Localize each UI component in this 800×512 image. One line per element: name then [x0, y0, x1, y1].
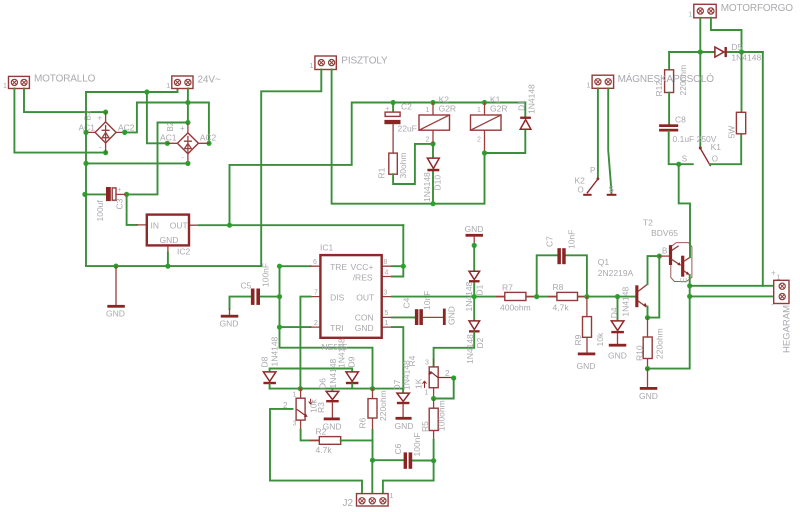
resistor R8 4,7k [549, 282, 586, 313]
svg-text:400ohm: 400ohm [500, 303, 531, 313]
svg-text:R4: R4 [407, 355, 417, 366]
bridge rectifier B3 [79, 110, 135, 152]
svg-text:1: 1 [426, 107, 430, 114]
svg-text:10nF: 10nF [567, 230, 577, 249]
node D4 tap [615, 294, 620, 299]
node T2 emitter rail [687, 283, 692, 288]
svg-text:J2: J2 [343, 498, 354, 509]
wire emitter to T2 base riser [648, 256, 660, 318]
svg-text:1: 1 [477, 107, 481, 114]
svg-text:30ohm: 30ohm [398, 153, 408, 179]
node TRE [277, 264, 282, 269]
svg-text:6: 6 [313, 259, 317, 266]
wire X4 pin1 down to K2 pivot [597, 88, 599, 178]
wire R10 bottom loop to emitter node of T2 [648, 296, 690, 368]
wire B2 plus to C3 node [127, 123, 188, 195]
capacitor C2 22uF [384, 102, 416, 154]
svg-text:GND: GND [106, 309, 125, 319]
svg-text:10k: 10k [595, 332, 605, 346]
svg-text:1: 1 [688, 11, 692, 18]
svg-text:K2: K2 [575, 176, 586, 186]
wire C6 node down to J2 pin1 [383, 461, 434, 494]
wire R1 bottom to K2 coil node [393, 144, 433, 184]
svg-text:R9: R9 [573, 334, 583, 345]
svg-text:+: + [771, 269, 776, 278]
svg-text:1N4148: 1N4148 [337, 338, 347, 368]
wire B-minus rail [86, 162, 188, 164]
wire pin7 DIS down x=300.4 [300, 297, 310, 389]
svg-text:C7: C7 [545, 236, 555, 247]
ground G7 under D4 [608, 344, 627, 361]
node rail left [83, 161, 88, 166]
svg-text:1: 1 [166, 83, 170, 90]
diode D1 (GND steering) 1N4148 [464, 245, 485, 321]
svg-text:TRE: TRE [330, 262, 347, 272]
svg-text:R10: R10 [635, 345, 645, 361]
svg-text:5: 5 [385, 310, 389, 317]
wire PISZTOLY pin1 to GND rail [261, 70, 321, 267]
svg-text:1K: 1K [414, 378, 424, 389]
svg-text:B: B [662, 247, 667, 256]
resistor R1 30ohm [377, 153, 409, 179]
wire R6 bottom to valley node [372, 430, 374, 460]
svg-text:S: S [609, 185, 614, 194]
svg-text:K1: K1 [711, 142, 722, 152]
wire D8 D9 top link [270, 369, 353, 372]
node 24Vpin2 y102.5 [185, 100, 190, 105]
svg-text:+: + [180, 124, 185, 133]
svg-text:S: S [682, 154, 687, 163]
svg-text:GND: GND [355, 323, 374, 333]
node B3 AC2 [122, 130, 127, 135]
wire PISZTOLY pin2 down to y204 rail [332, 70, 485, 204]
resistor R6 220ohm [358, 389, 389, 430]
svg-text:GND: GND [395, 421, 414, 431]
wire K1 S node down jog to T2 collector [679, 164, 690, 244]
capacitor C5 100nF [241, 263, 271, 305]
node rail x=372.5 [370, 386, 375, 391]
svg-text:2: 2 [477, 137, 481, 144]
svg-text:2: 2 [445, 369, 450, 378]
ground G6 under R9 [577, 353, 596, 372]
node K2 coil bottom [430, 141, 435, 146]
svg-text:1: 1 [385, 320, 389, 327]
svg-text:E: E [680, 278, 689, 283]
trimmer R3 10k [283, 389, 326, 430]
svg-text:D6: D6 [318, 378, 328, 389]
svg-text:1: 1 [777, 275, 781, 282]
node R4 bottom / R5 top [431, 396, 436, 401]
ground G2 under C5 [220, 309, 239, 329]
ground G9 east of C4 [423, 306, 457, 325]
diode D2 1N4148 [434, 321, 485, 367]
svg-text:B3: B3 [84, 110, 93, 120]
svg-text:1: 1 [390, 493, 394, 500]
svg-text:GND: GND [639, 391, 658, 401]
ground G1 [106, 266, 125, 318]
node C3 right [124, 192, 129, 197]
svg-text:4,7k: 4,7k [553, 303, 570, 313]
node B3 AC1 [83, 130, 88, 135]
diode D7 1N4148 [392, 360, 412, 417]
connector X2 24V [166, 75, 221, 91]
resistor R10 220ohm [635, 318, 665, 369]
node B3 plus [103, 110, 108, 115]
wire y=102.5 cross link [125, 103, 209, 144]
node D10 bottom [430, 201, 435, 206]
diode D9 1N4148 [337, 338, 359, 389]
svg-text:24V~: 24V~ [198, 75, 221, 86]
wire pin5 CON to C4 [392, 316, 415, 318]
svg-text:R5: R5 [420, 421, 430, 432]
node IC2 GND on rail [165, 264, 170, 269]
svg-text:IC2: IC2 [177, 247, 191, 257]
svg-text:-: - [181, 153, 184, 162]
node Q1 emitter [645, 315, 650, 320]
svg-text:DIS: DIS [330, 293, 345, 303]
node TRI [277, 325, 282, 330]
svg-text:D2: D2 [475, 337, 485, 348]
wire MOTORALLO pin2 down and right to B3 plus [24, 89, 106, 113]
diode D8 1N4148 [260, 336, 280, 388]
svg-text:R7: R7 [502, 283, 513, 293]
trimmer R4 1K [407, 355, 454, 398]
resistor R9 10k [573, 297, 605, 353]
svg-text:1N4148: 1N4148 [465, 334, 475, 364]
svg-text:7: 7 [314, 289, 318, 296]
svg-text:C8: C8 [675, 115, 686, 125]
svg-text:GND: GND [608, 351, 627, 361]
svg-text:R8: R8 [553, 282, 564, 292]
svg-text:GND: GND [220, 319, 239, 329]
svg-text:100uf: 100uf [95, 200, 105, 222]
svg-text:+: + [385, 106, 389, 113]
node C3 left [82, 192, 87, 197]
wire main OUT line y=296.6 [392, 296, 635, 298]
node valley right [431, 458, 436, 463]
svg-text:G2R: G2R [439, 104, 456, 114]
wire R3 bottom to R2 [301, 430, 320, 441]
svg-text:4.7k: 4.7k [316, 445, 333, 455]
svg-text:GND: GND [577, 361, 596, 371]
svg-text:D9: D9 [347, 356, 357, 367]
resistor 5W [727, 52, 746, 139]
svg-text:3: 3 [293, 421, 297, 428]
svg-text:22uF: 22uF [398, 124, 417, 134]
svg-text:1N4148: 1N4148 [621, 287, 631, 317]
capacitor C8 0.1uF 250V [659, 93, 717, 165]
svg-text:D7: D7 [392, 379, 402, 390]
ground G4 under D6 [323, 418, 342, 432]
node R8 right [584, 294, 589, 299]
wire down to B2 AC1 [147, 92, 167, 143]
connector X1 MOTORALLO [3, 74, 96, 91]
diode D6 1N4148 [318, 358, 339, 417]
wire MOTORALLO pin1 down and right to B3 minus [14, 89, 105, 153]
wire VCC from IC2 OUT [199, 224, 403, 226]
svg-text:T2: T2 [643, 218, 653, 228]
svg-text:C5: C5 [241, 281, 252, 291]
svg-text:D5: D5 [731, 42, 742, 52]
wire J2 pin2 riser [371, 460, 373, 493]
svg-text:TRI: TRI [330, 323, 344, 333]
svg-text:C2: C2 [401, 102, 412, 112]
svg-text:O: O [712, 154, 718, 163]
wire to HEGARAM pin2 [690, 295, 779, 297]
wire 24V pin2 down to B2 plus [187, 89, 189, 123]
resistor R2 4.7k [311, 427, 373, 456]
node R10 bottom [645, 366, 650, 371]
svg-text:MÁGNESKAPCSOLÓ: MÁGNESKAPCSOLÓ [618, 72, 715, 85]
diode D1 flyback 1N4148 [485, 84, 537, 153]
capacitor C4 10nF [402, 291, 433, 325]
connector X5 MOTORFORGO [688, 3, 793, 18]
svg-text:MOTORFORGO: MOTORFORGO [721, 3, 794, 14]
node Q1 collector / T2 base [657, 254, 662, 259]
ground G5 under D7 [395, 417, 414, 431]
diode D5 1N4148 [715, 42, 762, 63]
svg-text:G2R: G2R [490, 104, 507, 114]
capacitor C3 100uf [95, 187, 127, 222]
relay coil K2 G2R [419, 94, 456, 144]
resistor R12 220ohm [654, 52, 688, 97]
svg-text:PISZTOLY: PISZTOLY [341, 56, 388, 67]
svg-text:2: 2 [314, 320, 318, 327]
svg-text:P: P [590, 166, 595, 175]
svg-text:MOTORALLO: MOTORALLO [34, 74, 96, 85]
wire C5 left to ground G2 [230, 297, 251, 309]
wire C3 left to rail [85, 193, 106, 195]
svg-text:OUT: OUT [170, 220, 188, 230]
svg-text:1: 1 [293, 392, 297, 399]
svg-text:CON: CON [355, 312, 374, 322]
node B3 minus [103, 150, 108, 155]
svg-text:GND: GND [447, 306, 457, 325]
wire y=52 run [669, 51, 763, 53]
svg-text:BDV65: BDV65 [651, 228, 678, 238]
node VCC riser [227, 223, 232, 228]
wire pin1 GND down to rail y=388.6 [392, 327, 403, 389]
wire IC2 GND down to rail [167, 252, 169, 266]
svg-text:AC2: AC2 [200, 133, 217, 143]
wire emitter node to HEGARAM pin1 [690, 285, 779, 287]
node R4 wiper [451, 375, 456, 380]
wire X4 pin2 down to K2 S contact [608, 88, 611, 193]
connector X6 HEGARAM [771, 269, 793, 354]
transistor Q1 2N2219A [598, 256, 660, 318]
node valley left [370, 458, 375, 463]
connector J2 [343, 493, 394, 509]
svg-text:IC1: IC1 [320, 243, 334, 253]
capacitor C7 10nF [537, 230, 587, 297]
svg-text:100nF: 100nF [412, 432, 422, 456]
svg-text:C6: C6 [393, 443, 403, 454]
node DIS rail left [298, 386, 303, 391]
ground G3 inverted above D1 [465, 224, 484, 246]
wire 24V pin1 run y=92 [86, 89, 178, 93]
svg-text:1N4148: 1N4148 [422, 172, 432, 202]
svg-text:2N2219A: 2N2219A [598, 268, 634, 278]
wire valley line with C6 [373, 459, 434, 461]
svg-text:100nF: 100nF [261, 263, 271, 287]
svg-text:R1: R1 [377, 167, 387, 178]
svg-text:O: O [578, 185, 584, 194]
svg-text:R2: R2 [316, 427, 327, 437]
wire R4 wiper loop to R4 bottom [434, 378, 454, 399]
svg-text:+: + [117, 187, 121, 194]
node pin8 vcc [401, 264, 406, 269]
node K1 S junction [676, 162, 681, 167]
svg-text:4: 4 [385, 269, 389, 276]
svg-text:1N4148: 1N4148 [527, 84, 537, 114]
bridge rectifier B2 [160, 121, 217, 163]
svg-text:HEGARAM: HEGARAM [782, 305, 793, 353]
node R7/C7 left [534, 294, 539, 299]
node B2 AC2 [206, 141, 211, 146]
svg-text:10nF: 10nF [422, 291, 432, 310]
voltage regulator IC2 [137, 215, 199, 257]
resistor R5 100ohm [420, 399, 447, 441]
svg-text:1: 1 [587, 82, 591, 89]
svg-text:D1: D1 [517, 100, 527, 111]
svg-text:-: - [99, 143, 102, 152]
svg-text:1N4148: 1N4148 [328, 358, 338, 388]
svg-text:R6: R6 [358, 417, 368, 428]
wire rail y=388.6 [270, 388, 404, 390]
connector X4 MAGNESKAPCSOLO [587, 72, 715, 89]
wire C3 node down to IC2 IN [127, 194, 137, 225]
node C2 tap [391, 100, 396, 105]
svg-text:-: - [771, 300, 774, 309]
wire C5 right [260, 296, 280, 298]
node C5 right [277, 294, 282, 299]
switch K2 reed [575, 166, 617, 196]
node B2 AC1 [165, 141, 170, 146]
node K2 coil top [430, 100, 435, 105]
svg-text:3: 3 [425, 360, 429, 367]
diode D4 1N4148 [609, 287, 631, 344]
svg-text:D10: D10 [433, 175, 443, 191]
relay contact K1 [679, 142, 722, 166]
svg-text:+: + [98, 114, 103, 123]
svg-text:C4: C4 [402, 297, 412, 308]
node main line / D1 [472, 294, 477, 299]
node HEGARAM lower wire [687, 294, 692, 299]
relay coil K1 G2R [471, 94, 508, 153]
svg-text:1: 1 [310, 63, 314, 70]
connector X3 PISZTOLY [310, 56, 389, 71]
svg-text:3: 3 [384, 289, 388, 296]
wire VCC riser up and over to relay rail [230, 103, 526, 226]
svg-text:VCC+: VCC+ [351, 262, 374, 272]
svg-text:IN: IN [151, 220, 160, 230]
wire MOTORFORGO pin2 jog to D5 right node [711, 18, 742, 52]
wire R3 wiper to J2 loop [270, 409, 362, 494]
svg-text:2: 2 [426, 137, 430, 144]
svg-text:1N4148: 1N4148 [731, 53, 761, 63]
wire MOTORFORGO pin1 down to K1 contact [699, 18, 701, 147]
wire left GND rail x=86 [85, 92, 87, 266]
svg-text:GND: GND [465, 224, 484, 234]
svg-text:D8: D8 [260, 356, 270, 367]
svg-text:1N4148: 1N4148 [270, 336, 280, 366]
IC1 NE555 [310, 243, 392, 352]
svg-text:1: 1 [425, 390, 429, 397]
node y92 junction [144, 89, 149, 94]
diode D10 1N4148 [422, 144, 443, 204]
wire R5 bottom to valley [433, 440, 435, 461]
svg-text:GND: GND [160, 235, 179, 245]
svg-text:8: 8 [384, 259, 388, 266]
transistor T2 BDV65 darlington [643, 218, 692, 297]
wire right rail down to emitter line [762, 52, 764, 286]
node D5 left [698, 49, 703, 54]
svg-text:C3: C3 [115, 198, 125, 209]
svg-text:5W: 5W [727, 126, 737, 139]
svg-text:100ohm: 100ohm [437, 400, 447, 431]
svg-text:Q1: Q1 [598, 257, 610, 267]
svg-text:220ohm: 220ohm [378, 390, 388, 421]
node G3 tap [472, 243, 477, 248]
wire pins 8+4 to VCC riser [392, 225, 403, 276]
node GND symbol tap [113, 264, 118, 269]
svg-text:R3: R3 [316, 402, 326, 413]
node D5 right [739, 49, 744, 54]
svg-text:220ohm: 220ohm [655, 328, 665, 359]
svg-text:AC1: AC1 [160, 133, 177, 143]
ground G8 under R10 [639, 369, 658, 401]
resistor R7 400ohm [497, 283, 535, 313]
wire TRE/TRI riser x=279.5 [280, 266, 373, 388]
wire K1 O contact to 5W resistor [710, 134, 741, 164]
node K1 coil top [482, 100, 487, 105]
node B2 plus [185, 120, 190, 125]
svg-text:/RES: /RES [353, 273, 373, 283]
capacitor C6 100nF [393, 432, 422, 468]
svg-text:D4: D4 [609, 307, 619, 318]
node B2 minus on rail [185, 161, 190, 166]
wire bottom GND rail y=266 [86, 265, 261, 267]
svg-text:OUT: OUT [356, 293, 374, 303]
svg-text:D1: D1 [475, 284, 485, 295]
svg-text:1: 1 [3, 83, 7, 90]
node K1 coil bottom [482, 150, 487, 155]
